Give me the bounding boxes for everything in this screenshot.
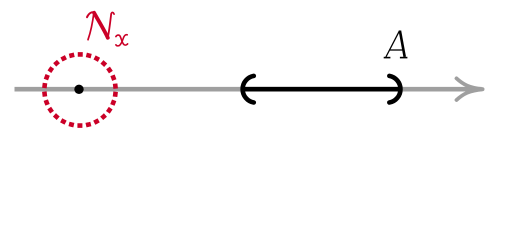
arrowhead of number line [457, 78, 483, 100]
interval segment A (thick black) [243, 87, 401, 92]
label N_x subscript x (red italic x) [116, 35, 128, 46]
neighborhood circle N_x (red dotted) [44, 54, 115, 125]
number line (gray axis wire) [15, 87, 482, 92]
label N_x (red calligraphic N) [87, 12, 114, 39]
right open bracket ) [389, 76, 400, 103]
label A (black italic serif A) [384, 31, 408, 58]
point x (black dot) [74, 85, 83, 94]
left open bracket ( [243, 76, 254, 103]
